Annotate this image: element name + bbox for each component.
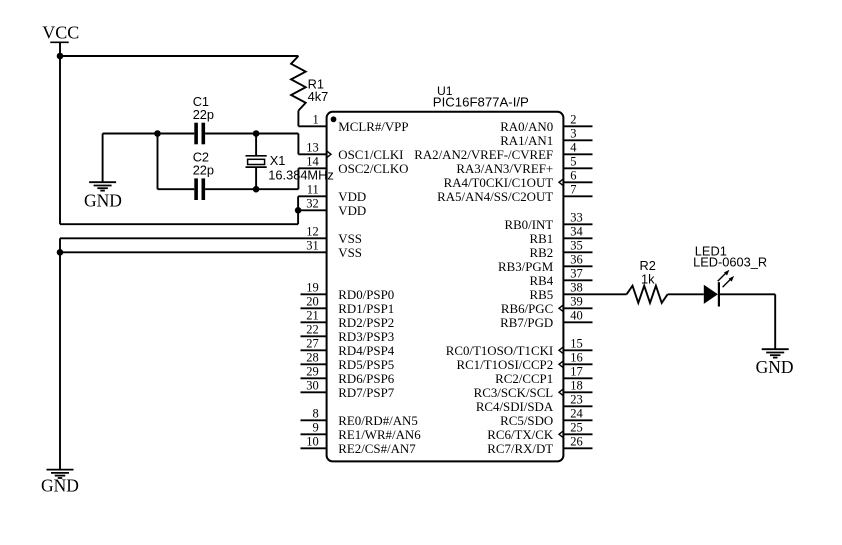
wire cap tie vertical (157, 134, 159, 190)
svg-text:RB2: RB2 (530, 246, 554, 260)
svg-text:VSS: VSS (338, 246, 362, 260)
pin 35 RB2 (563, 251, 592, 253)
LED LED1 emission arrow 1 (718, 273, 727, 282)
pin 5 RA3/AN3/VREF+ (563, 167, 592, 169)
svg-text:X1: X1 (270, 153, 286, 168)
ground GND (oscillator) (89, 181, 116, 183)
svg-text:22p: 22p (193, 163, 214, 178)
wire C1 left lead (158, 133, 195, 135)
svg-text:18: 18 (570, 379, 583, 393)
svg-text:8: 8 (313, 407, 319, 421)
svg-text:23: 23 (570, 393, 583, 407)
svg-text:7: 7 (570, 183, 576, 197)
svg-text:RD3/PSP3: RD3/PSP3 (338, 330, 394, 344)
pin 34 RB1 (563, 237, 592, 239)
pin 36 RB3/PGM (563, 265, 592, 267)
wire VSS rail to ground (59, 252, 61, 469)
svg-text:GND: GND (756, 357, 794, 377)
wire VDD return bottom run (60, 223, 298, 225)
wire to pin 14 OSC2 (298, 167, 326, 169)
svg-text:39: 39 (570, 295, 583, 309)
svg-text:27: 27 (306, 337, 319, 351)
pin 3 RA1/AN1 (563, 139, 592, 141)
svg-text:RC0/T1OSO/T1CKI: RC0/T1OSO/T1CKI (446, 344, 553, 358)
pin 33 RB0/INT (563, 223, 592, 225)
LED LED1 emission arrow 2 (723, 279, 731, 287)
svg-text:RA4/T0CKI/C1OUT: RA4/T0CKI/C1OUT (444, 176, 554, 190)
pin 29 RD6/PSP6 (301, 377, 327, 379)
power symbol VCC bar and stub (50, 41, 68, 43)
svg-text:VDD: VDD (338, 190, 366, 204)
svg-text:MCLR#/VPP: MCLR#/VPP (338, 120, 408, 134)
svg-text:RE2/CS#/AN7: RE2/CS#/AN7 (338, 442, 416, 456)
svg-text:RC6/TX/CK: RC6/TX/CK (487, 428, 554, 442)
node VDD at pin 32 (295, 207, 302, 214)
capacitor C2 (194, 178, 198, 200)
pin 40 RB7/PGD (563, 321, 592, 323)
svg-text:13: 13 (306, 141, 319, 155)
pin 37 RB4 (563, 279, 592, 281)
wire gnd branch down (102, 134, 104, 183)
svg-text:28: 28 (306, 351, 319, 365)
pin 19 RD0/PSP0 (301, 293, 327, 295)
svg-text:9: 9 (313, 421, 319, 435)
svg-text:22p: 22p (193, 107, 214, 122)
node crystal bottom (253, 186, 260, 193)
wire pin 12 VSS (60, 237, 327, 239)
svg-text:6: 6 (570, 169, 576, 183)
svg-text:RB7/PGD: RB7/PGD (500, 316, 553, 330)
svg-text:25: 25 (570, 421, 583, 435)
svg-text:36: 36 (570, 253, 583, 267)
wire to pin 13 OSC1 (298, 153, 326, 155)
crystal X1 (246, 155, 267, 157)
svg-text:4: 4 (570, 141, 577, 155)
svg-text:RB6/PGC: RB6/PGC (501, 302, 553, 316)
wire crystal top lead (255, 134, 257, 156)
svg-text:34: 34 (570, 225, 583, 239)
svg-text:RB0/INT: RB0/INT (504, 218, 553, 232)
resistor R2 (627, 286, 668, 303)
ground GND (LED) (762, 348, 789, 350)
svg-text:RA3/AN3/VREF+: RA3/AN3/VREF+ (456, 162, 553, 176)
svg-text:30: 30 (306, 379, 319, 393)
pin 26 RC7/RX/DT (563, 447, 592, 449)
wire C2 right to OSC2 corner (205, 188, 298, 190)
ground GND (bottom left) (47, 469, 74, 471)
pin 1 marker dot (331, 116, 337, 122)
svg-text:RC5/SDO: RC5/SDO (500, 414, 553, 428)
svg-text:12: 12 (306, 225, 319, 239)
wire C1 right to OSC1 corner (205, 133, 298, 135)
svg-text:1k: 1k (641, 271, 655, 286)
svg-text:22: 22 (306, 323, 319, 337)
svg-text:LED-0603_R: LED-0603_R (693, 255, 767, 270)
svg-text:33: 33 (570, 211, 583, 225)
svg-text:26: 26 (570, 435, 583, 449)
svg-text:RC1/T1OSI/CCP2: RC1/T1OSI/CCP2 (456, 358, 553, 372)
svg-text:19: 19 (306, 281, 319, 295)
wire VCC to R1 top (60, 55, 298, 57)
svg-text:RD1/PSP1: RD1/PSP1 (338, 302, 394, 316)
wire pin 38 to R2 (563, 293, 626, 295)
svg-text:17: 17 (570, 365, 583, 379)
svg-text:4k7: 4k7 (308, 89, 329, 104)
wire C2 left lead (158, 188, 195, 190)
pin 17 RC2/CCP1 (563, 377, 592, 379)
svg-text:RE0/RD#/AN5: RE0/RD#/AN5 (338, 414, 418, 428)
pin 2 RA0/AN0 (563, 125, 592, 127)
pin 28 RD5/PSP5 (301, 363, 327, 365)
svg-text:40: 40 (570, 309, 583, 323)
pin 20 RD1/PSP1 (301, 307, 327, 309)
svg-text:RB5: RB5 (530, 288, 554, 302)
svg-text:RD6/PSP6: RD6/PSP6 (338, 372, 394, 386)
node oscillator ground tie (154, 130, 161, 137)
svg-text:RB3/PGM: RB3/PGM (498, 260, 554, 274)
node crystal top (253, 130, 260, 137)
svg-text:14: 14 (306, 155, 319, 169)
svg-text:RA0/AN0: RA0/AN0 (500, 120, 553, 134)
capacitor C1 (194, 123, 198, 145)
pin 8 RE0/RD#/AN5 (301, 419, 327, 421)
wire crystal bottom lead (255, 167, 257, 189)
svg-text:RD2/PSP2: RD2/PSP2 (338, 316, 394, 330)
svg-text:RC3/SCK/SCL: RC3/SCK/SCL (474, 386, 554, 400)
svg-text:RE1/WR#/AN6: RE1/WR#/AN6 (338, 428, 421, 442)
svg-text:RC7/RX/DT: RC7/RX/DT (487, 442, 553, 456)
svg-text:5: 5 (570, 155, 576, 169)
pin 30 RD7/PSP7 (301, 391, 327, 393)
svg-text:RD7/PSP7: RD7/PSP7 (338, 386, 394, 400)
svg-text:29: 29 (306, 365, 319, 379)
svg-text:VDD: VDD (338, 204, 366, 218)
svg-text:RA1/AN1: RA1/AN1 (500, 134, 553, 148)
svg-text:RC4/SDI/SDA: RC4/SDI/SDA (476, 400, 554, 414)
wire R2 to LED1 anode (668, 293, 704, 295)
IC U1 PIC16F877A-I/P body (327, 112, 564, 462)
wire R1 bottom lead (297, 111, 299, 127)
wire pin 31 VSS (60, 251, 327, 253)
pin 21 RD2/PSP2 (301, 321, 327, 323)
svg-text:1: 1 (313, 113, 319, 127)
wire to pin 11 VDD (298, 195, 327, 197)
svg-text:RA2/AN2/VREF-/CVREF: RA2/AN2/VREF-/CVREF (414, 148, 553, 162)
wire LED1 cathode to corner (719, 293, 775, 295)
svg-text:31: 31 (306, 239, 319, 253)
wire OSC2 rise (297, 168, 299, 189)
svg-text:15: 15 (570, 337, 583, 351)
svg-text:24: 24 (570, 407, 583, 421)
svg-text:38: 38 (570, 281, 583, 295)
pin 7 RA5/AN4/SS/C2OUT (563, 195, 592, 197)
pin 4 RA2/AN2/VREF-/CVREF (563, 153, 592, 155)
wire to pin 32 VDD (298, 209, 327, 211)
wire down to GND (LED) (774, 294, 776, 349)
wire VSS corner down (59, 238, 61, 252)
pin 13 OSC1/CLKI (326, 151, 331, 159)
svg-text:16.384MHz: 16.384MHz (268, 167, 333, 182)
node VCC junction (57, 53, 64, 60)
svg-text:20: 20 (306, 295, 319, 309)
pin 10 RE2/CS#/AN7 (301, 447, 327, 449)
svg-text:PIC16F877A-I/P: PIC16F877A-I/P (433, 94, 529, 109)
resistor R1 (291, 56, 306, 111)
pin 27 RD4/PSP4 (301, 349, 327, 351)
svg-text:VSS: VSS (338, 232, 362, 246)
svg-text:16: 16 (570, 351, 583, 365)
pin 9 RE1/WR#/AN6 (301, 433, 327, 435)
svg-text:RD5/PSP5: RD5/PSP5 (338, 358, 394, 372)
svg-text:21: 21 (306, 309, 319, 323)
svg-text:GND: GND (84, 191, 122, 211)
node VSS junction (57, 249, 64, 256)
wire VDD riser (297, 196, 299, 224)
svg-text:11: 11 (307, 183, 319, 197)
LED LED1 cathode bar (718, 282, 720, 306)
svg-text:10: 10 (306, 435, 319, 449)
svg-text:RC2/CCP1: RC2/CCP1 (495, 372, 553, 386)
svg-text:2: 2 (570, 113, 576, 127)
svg-text:35: 35 (570, 239, 583, 253)
wire VCC left rail down (59, 56, 61, 224)
svg-text:OSC1/CLKI: OSC1/CLKI (338, 148, 403, 162)
pin 15 RC0/T1OSO/T1CKI (563, 349, 592, 351)
svg-text:VCC: VCC (42, 22, 79, 42)
svg-text:RD4/PSP4: RD4/PSP4 (338, 344, 394, 358)
wire R1 to pin 1 MCLR (298, 125, 326, 127)
svg-text:32: 32 (306, 197, 319, 211)
svg-text:3: 3 (570, 127, 576, 141)
svg-text:RD0/PSP0: RD0/PSP0 (338, 288, 394, 302)
svg-text:RB4: RB4 (530, 274, 554, 288)
svg-text:OSC2/CLKO: OSC2/CLKO (338, 162, 408, 176)
pin 6 RA4/T0CKI/C1OUT (563, 181, 592, 183)
svg-text:RB1: RB1 (530, 232, 554, 246)
pin 24 RC5/SDO (563, 419, 592, 421)
svg-text:RA5/AN4/SS/C2OUT: RA5/AN4/SS/C2OUT (437, 190, 553, 204)
pin 22 RD3/PSP3 (301, 335, 327, 337)
svg-text:37: 37 (570, 267, 583, 281)
pin 25 RC6/TX/CK (563, 433, 592, 435)
wire gnd branch left (103, 133, 158, 135)
wire OSC1 drop (297, 134, 299, 155)
pin 39 RB6/PGC (563, 307, 592, 309)
pin 23 RC4/SDI/SDA (563, 405, 592, 407)
pin 16 RC1/T1OSI/CCP2 (563, 363, 592, 365)
svg-text:GND: GND (41, 476, 79, 496)
LED LED1 triangle (704, 285, 718, 304)
pin 18 RC3/SCK/SCL (563, 391, 592, 393)
